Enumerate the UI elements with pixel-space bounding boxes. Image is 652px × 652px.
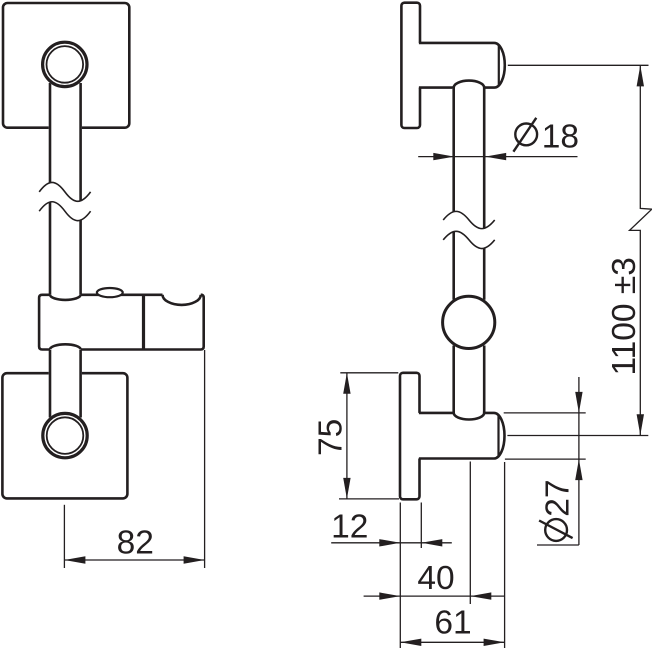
svg-text:18: 18 bbox=[542, 118, 579, 155]
svg-text:12: 12 bbox=[331, 508, 368, 545]
dimension Ø18: diameter symbol bbox=[513, 118, 537, 152]
front view: bar break wavy lines bbox=[39, 182, 90, 220]
svg-text:61: 61 bbox=[434, 605, 471, 642]
dimension 82: extension line right bbox=[204, 350, 206, 568]
extension line: arm cap end bbox=[504, 462, 506, 648]
dimension Ø27: dimension line bbox=[578, 377, 580, 545]
dimension 75: bottom arrow bbox=[343, 478, 350, 499]
dimension 75: dimension line bbox=[346, 373, 348, 499]
svg-text:40: 40 bbox=[417, 560, 454, 597]
dimension Ø27: diameter symbol bbox=[539, 519, 573, 541]
dimension 61: right arrow bbox=[484, 639, 505, 646]
dimension Ø27: upper arrow bbox=[575, 392, 582, 413]
side view: top mount arm outline with bar fillet dome bbox=[419, 43, 505, 88]
dimension 40: dimension line bbox=[364, 595, 505, 597]
dimension 82: left arrow bbox=[64, 556, 85, 563]
side view: top wall plate edge bbox=[401, 3, 420, 128]
dimension 82: extension line left bbox=[63, 505, 65, 568]
front view: bar right edge segments bbox=[79, 83, 82, 418]
dimension Ø27: bottom edge extension line bbox=[505, 458, 586, 460]
side view: slide bar fill bbox=[452, 88, 485, 413]
front view: slider bottom collar arc bbox=[50, 344, 81, 349]
dimension Ø18: right arrow bbox=[485, 153, 506, 160]
front view: slider divider line bbox=[142, 295, 145, 350]
svg-text:27: 27 bbox=[539, 480, 576, 517]
dimension 61: dimension line bbox=[400, 641, 504, 643]
dimension 1100: dimension line with break symbol bbox=[630, 65, 652, 435]
dimension 75: bottom extension line bbox=[339, 498, 399, 500]
extension line: wall face bbox=[399, 503, 401, 649]
dimension 61: left arrow bbox=[400, 639, 421, 646]
dimension 12: right arrow bbox=[421, 539, 442, 546]
svg-text:75: 75 bbox=[312, 419, 349, 456]
dimension Ø27: text shelf line bbox=[537, 544, 579, 546]
dimension Ø18: dimension line bbox=[418, 156, 577, 158]
side view: bar break wavy lines bbox=[443, 211, 495, 248]
front view: slide bar body (white fill) bbox=[49, 58, 82, 417]
front view: top mount knob (double ring circle) bbox=[41, 41, 89, 89]
front view: top wall plate (square) bbox=[3, 3, 129, 128]
dimension 82: right arrow bbox=[184, 556, 205, 563]
front view: slider release button (ellipse) bbox=[97, 288, 123, 297]
front view: slider outline bbox=[39, 295, 204, 350]
side view: top arm end cap line bbox=[498, 46, 500, 85]
svg-text:82: 82 bbox=[117, 525, 154, 562]
side view: slider knob circle bbox=[441, 295, 496, 350]
side view: bottom wall plate edge bbox=[400, 373, 420, 500]
side view: bottom arm end cap line bbox=[497, 416, 499, 456]
extension line: plate back bbox=[420, 503, 422, 549]
dimension 40: right arrow bbox=[470, 592, 491, 599]
front view: slider body fill bbox=[39, 295, 204, 350]
dimension 1100: bottom arrow bbox=[637, 414, 644, 435]
dimension 40: left arrow bbox=[379, 592, 400, 599]
dimension Ø27: top edge extension line bbox=[504, 412, 586, 414]
front view: bar left edge segments bbox=[49, 83, 52, 418]
side view: bottom mount arm fill bbox=[412, 413, 499, 459]
dimension 12: left arrow bbox=[379, 539, 400, 546]
dimension Ø18: left arrow bbox=[433, 153, 454, 160]
side view: bar left edge segments bbox=[452, 88, 455, 413]
side view: top mount arm fill bbox=[412, 43, 499, 88]
dimension 1100: top arrow bbox=[637, 65, 644, 86]
extension line: bar centerline bbox=[469, 462, 471, 605]
dimension 1100: bottom extension line bbox=[507, 435, 648, 437]
front view: bottom wall plate (square) bbox=[2, 373, 127, 498]
svg-text:1100 ±3: 1100 ±3 bbox=[606, 257, 643, 375]
side view: bar right edge segments bbox=[483, 88, 486, 413]
front view: bottom mount knob (double ring circle) bbox=[41, 412, 89, 460]
dimension 75: top arrow bbox=[343, 373, 350, 394]
dimension 1100: top extension line bbox=[508, 64, 649, 66]
dimension 75: top extension line bbox=[340, 372, 398, 374]
dimension Ø27: lower arrow bbox=[575, 459, 582, 480]
side view: bottom mount arm outline with bar fillet bbox=[419, 413, 505, 459]
dimension 82: dimension line bbox=[64, 559, 204, 561]
dimension 12: dimension line bbox=[331, 542, 452, 544]
